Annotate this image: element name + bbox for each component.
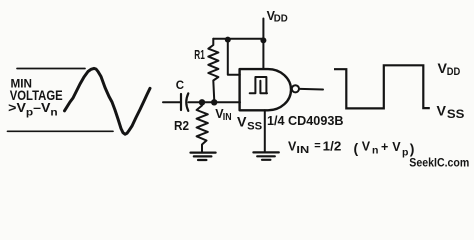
op-amp gate U1: 1/4 CD4093B NAND Schmitt trigger body: [240, 69, 291, 110]
wire: gate output: [300, 88, 323, 91]
VDD supply lead: [262, 19, 264, 69]
svg-text:IN: IN: [223, 111, 232, 123]
svg-text:R2: R2: [174, 118, 189, 133]
svg-text:SS: SS: [247, 120, 262, 132]
svg-text:): ): [410, 141, 415, 157]
node VIN junction dot (R1 tap): [211, 99, 217, 105]
svg-text:SeekIC.com: SeekIC.com: [409, 156, 469, 170]
wire: bias rail (R1 top to VDD line): [213, 38, 263, 40]
svg-text:n: n: [372, 145, 378, 157]
svg-text:V: V: [237, 115, 247, 131]
Schmitt hysteresis symbol inside gate: [250, 77, 267, 93]
svg-text:(: (: [354, 140, 359, 156]
annotation: MIN VOLTAGE > Vp - Vn: [8, 78, 63, 118]
ground (below R2): [191, 153, 216, 160]
wire: branch from rail to gate upper input: [228, 40, 240, 75]
input waveform top level line: [17, 68, 85, 70]
svg-text:R1: R1: [194, 48, 205, 62]
wire: capacitor to gate input (node VIN): [189, 101, 241, 103]
output inversion bubble: [292, 85, 299, 92]
output square wave: [334, 65, 430, 108]
svg-text:V: V: [362, 140, 371, 154]
svg-text:+: +: [381, 140, 388, 154]
wire: input to capacitor: [163, 101, 181, 103]
resistor R1: [208, 39, 218, 100]
svg-text:DD: DD: [274, 14, 288, 25]
VSS supply lead: [264, 110, 266, 151]
svg-text:=: =: [314, 140, 320, 152]
svg-text:1/4 CD4093B: 1/4 CD4093B: [267, 113, 344, 128]
node VIN junction dot (R2 tap): [199, 99, 205, 105]
svg-text:C: C: [176, 80, 184, 92]
input waveform bottom level line: [8, 130, 114, 132]
ground (below VSS lead): [253, 152, 278, 159]
svg-text:p: p: [402, 146, 408, 158]
sine wave: [65, 68, 151, 134]
svg-text:V: V: [437, 104, 447, 120]
capacitor C: [181, 93, 188, 111]
svg-text:V: V: [392, 140, 401, 154]
svg-text:DD: DD: [447, 66, 461, 78]
svg-text:>Vp–Vn: >Vp–Vn: [8, 101, 58, 119]
svg-text:SS: SS: [447, 109, 465, 121]
resistor R2: [197, 104, 208, 152]
formula: VIN = 1/2 (Vn + Vp): [288, 139, 414, 158]
svg-text:IN: IN: [296, 144, 309, 156]
junction dot: bias rail at VDD lead: [260, 37, 266, 43]
svg-text:1/2: 1/2: [323, 140, 342, 154]
junction dot: bias rail to gate input branch: [225, 37, 231, 43]
